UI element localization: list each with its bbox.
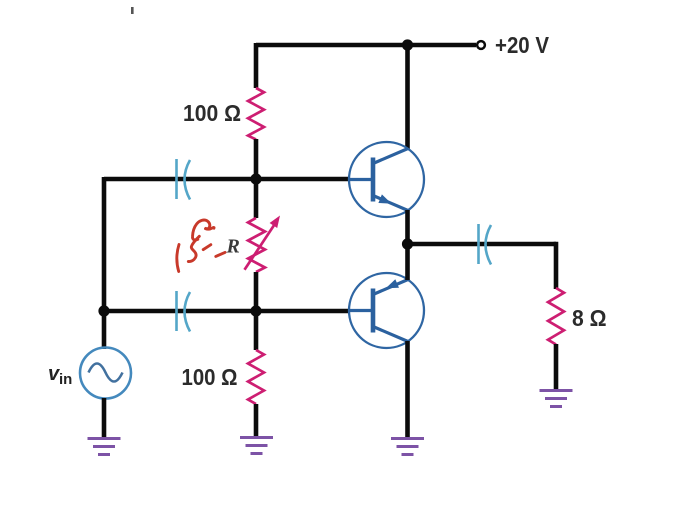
capacitor C1 [177, 159, 191, 200]
svg-text:+20 V: +20 V [495, 32, 550, 58]
ground R2 [240, 438, 273, 454]
wire output row [408, 242, 557, 247]
wire RL to ground [554, 344, 559, 391]
wire row1 node to R [254, 179, 259, 218]
transistor Q1 [349, 142, 424, 217]
transistor Q2 [349, 273, 424, 348]
node at top rail [402, 39, 413, 50]
capacitor C2 [177, 291, 191, 332]
wire R to row2 [254, 272, 259, 311]
wire source to ground [102, 398, 107, 439]
ground RL [540, 391, 573, 407]
wire row1 [104, 177, 350, 182]
terminal +20V [477, 41, 485, 49]
node row2 mid [250, 305, 261, 316]
ground Vin [88, 439, 121, 455]
svg-text:100 Ω: 100 Ω [183, 100, 241, 126]
svg-text:in: in [59, 371, 72, 388]
resistor R1 100ohm top [248, 88, 264, 140]
wire row2 node to R2 [254, 311, 259, 350]
stray mark [131, 7, 134, 14]
variable resistor R [245, 216, 281, 273]
annotation 15-ohm handwritten [177, 220, 225, 271]
resistor RL 8ohm [548, 288, 564, 345]
wire top branch vertical [254, 43, 259, 88]
source Vin [80, 348, 131, 399]
wire collector Q1 [405, 45, 410, 150]
wire Q2 emitter up [405, 243, 410, 280]
wire left vertical [102, 177, 107, 349]
capacitor C3 [479, 224, 492, 265]
wire top rail [256, 43, 476, 48]
wire Q1 emitter down [405, 210, 410, 246]
wire Q2 collector down [405, 341, 410, 439]
svg-text:100 Ω: 100 Ω [182, 364, 238, 390]
svg-text:R: R [226, 236, 240, 258]
wire R1 to row1 [254, 139, 259, 179]
wire row2 [104, 309, 350, 314]
wire R2 to ground [254, 404, 259, 438]
node output [402, 238, 413, 249]
svg-text:8 Ω: 8 Ω [572, 305, 607, 331]
wire right vertical [554, 242, 559, 289]
ground Q2 [391, 439, 424, 455]
node row1 [250, 173, 261, 184]
resistor R2 100ohm bottom [248, 350, 264, 404]
node row2 left [98, 305, 109, 316]
